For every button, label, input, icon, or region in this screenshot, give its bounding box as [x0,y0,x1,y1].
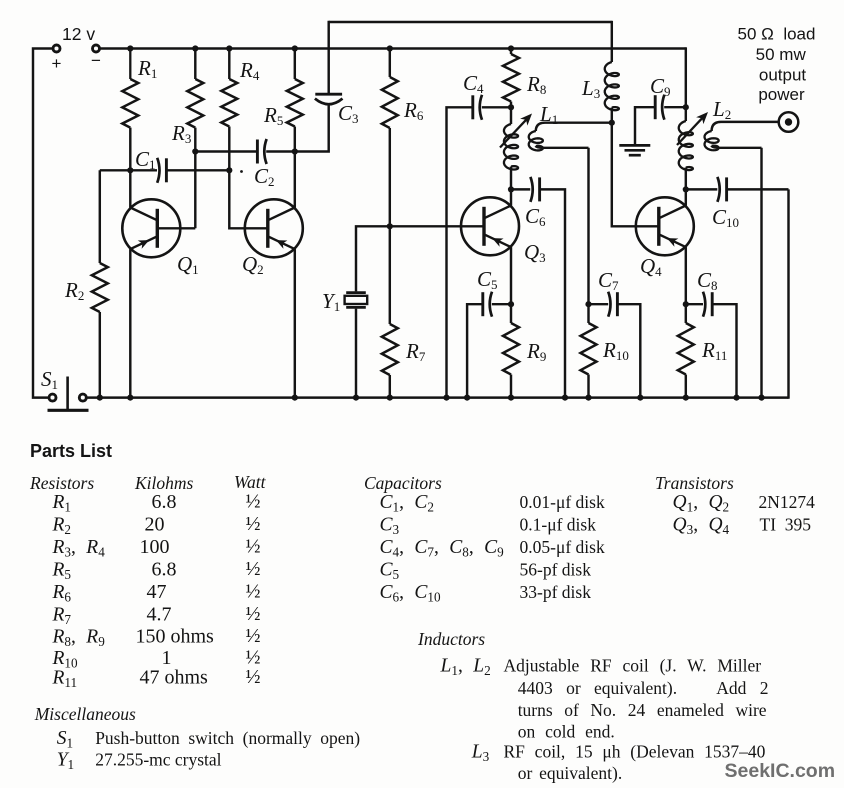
wire C4 left lead and drop to rail [447,107,473,397]
svg-text:6.8: 6.8 [152,559,177,581]
wire battery + lead and left drop [33,49,53,398]
wire C9 right lead [664,106,686,108]
wire C3 top lead [327,21,329,94]
svg-text:47 ohms: 47 ohms [140,667,209,689]
node Q4 collector / C10 junction [683,186,689,192]
capacitor C1 [165,158,168,182]
wire top rail from C3 to L3 [329,21,612,23]
arrow L1 adjustable core [500,118,528,148]
svg-text:½: ½ [246,558,261,580]
wire C9 left lead to ground [635,107,655,145]
svg-text:50 Ω load: 50 Ω load [738,25,816,44]
svg-text:Q3, Q4: Q3, Q4 [673,515,730,538]
node Q1 emitter at rail [127,395,133,401]
svg-text:2N1274: 2N1274 [759,492,816,512]
node R3 bottom / C2 junction [192,148,198,154]
svg-text:0.01-μf disk: 0.01-μf disk [520,492,605,512]
inductor L1 secondary winding [536,123,612,131]
inductor L2 primary winding [685,107,687,121]
inductor L3 [611,21,613,62]
wire C1 right segment [166,169,229,171]
node R5 bottom / C2 / C3 junction [292,148,298,154]
node Q2 emitter at rail [292,395,298,401]
capacitor C7 [616,292,619,316]
svg-text:−: − [91,51,101,70]
svg-text:½: ½ [246,603,261,625]
wire C6 left lead [511,188,530,190]
resistor R11 [685,304,687,323]
wire Q4 emitter lead [685,247,687,304]
wire C8 left lead [686,303,703,305]
capacitor C4 [471,95,474,119]
wire Q1 emitter down to rail [129,249,131,398]
node R9 bottom [508,395,514,401]
capacitor C5 [481,292,484,316]
node C9 right junction [683,104,689,110]
capacitor C10 [725,177,728,201]
terminal battery − (12 v) [93,45,100,52]
wire Q2 emitter down to rail [294,249,296,398]
crystal Y1 [346,291,366,294]
wire L3 junction down to Q4 base [612,123,659,227]
node R7 bottom [387,395,393,401]
node R1 top [127,45,133,51]
svg-text:Capacitors: Capacitors [364,473,442,493]
wire Y1 bottom lead [355,309,357,398]
svg-text:4403 or equivalent). Add 2: 4403 or equivalent). Add 2 [518,678,769,698]
svg-text:R3, R4: R3, R4 [52,537,106,560]
capacitor C2 [256,140,259,164]
wire C10 right lead [727,188,789,190]
capacitor C6 [538,177,541,201]
node R6 bottom / Q3 base junction [387,223,393,229]
svg-text:½: ½ [246,625,261,647]
svg-text:½: ½ [246,491,261,513]
svg-text:L1, L2: L1, L2 [440,656,491,679]
node L1 secondary top / L3 junction [609,120,615,126]
arrow L2 adjustable core [677,116,704,145]
wire Q1 collector lead [129,170,131,207]
svg-text:or equivalent).: or equivalent). [518,763,623,783]
node C5 left at rail [464,395,470,401]
wire C2 line R3 to R5 [195,150,257,152]
svg-text:Parts List: Parts List [30,441,112,461]
transistor Q4 [636,197,694,255]
wire C7 left lead [589,303,609,305]
node R8 bottom / C4 / L1 junction [508,104,514,110]
transistor Q2 [245,199,303,257]
wire C3 bottom lead [295,103,329,151]
wire C1 left segment from R2 corner [100,169,157,171]
svg-text:50 mw: 50 mw [756,45,807,64]
svg-text:Resistors: Resistors [29,473,94,493]
capacitor C3 [315,93,342,96]
wire Q3 base line to Y1 [356,226,484,291]
svg-text:turns of No. 24 enameled wire: turns of No. 24 enameled wire [518,700,767,720]
node L2 secondary bottom at rail [758,395,764,401]
svg-text:47: 47 [147,581,167,603]
svg-text:R8, R9: R8, R9 [52,627,106,650]
node Y1 bottom [353,395,359,401]
svg-text:Kilohms: Kilohms [134,473,194,493]
wire C4 right lead [482,106,511,108]
node R2 bottom [97,395,103,401]
resistor R2 [92,263,108,312]
node C7 right at rail [637,395,643,401]
transistor Q1 [122,199,180,257]
svg-text:12 v: 12 v [62,24,95,44]
resistor R5 [294,49,296,80]
svg-text:output: output [759,66,807,85]
svg-text:27.255-mc crystal: 27.255-mc crystal [95,750,221,770]
svg-text:Watt: Watt [234,472,267,492]
svg-text:100: 100 [140,536,170,558]
wire Q1 base lead [157,227,195,229]
svg-text:0.05-μf disk: 0.05-μf disk [520,537,605,557]
node Q3 collector / C6 junction [508,186,514,192]
node R3 top [192,45,198,51]
svg-text:+: + [52,54,62,73]
svg-text:Q1, Q2: Q1, Q2 [673,492,730,515]
svg-text:C1, C2: C1, C2 [380,492,434,515]
svg-text:½: ½ [246,513,261,535]
capacitor C8 [711,292,714,316]
resistor R4 [228,49,230,80]
resistor R6 [389,49,391,78]
wire C10 left lead [686,188,718,190]
svg-text:½: ½ [246,536,261,558]
node R10 bottom [585,395,591,401]
wire C6 right lead and drop [540,189,565,397]
capacitor C9 [654,95,657,119]
terminal battery + (12 v) [53,45,60,52]
svg-text:½: ½ [246,666,261,688]
resistor R7 [389,226,391,324]
resistor R1 [129,49,131,80]
svg-text:6.8: 6.8 [152,491,177,513]
node C7 / R10 junction [585,301,591,307]
svg-text:on cold end.: on cold end. [518,722,615,742]
node R4 top [226,45,232,51]
svg-text:C4, C7, C8, C9: C4, C7, C8, C9 [380,537,505,560]
svg-text:Inductors: Inductors [417,629,485,649]
svg-text:Transistors: Transistors [655,473,734,493]
node C8 right at rail [733,395,739,401]
inductor L2 secondary winding [712,122,779,131]
svg-text:4.7: 4.7 [147,604,172,626]
wire Q4 collector lead [685,189,687,205]
switch S1 actuator bar [48,409,89,412]
svg-text:56-pf disk: 56-pf disk [520,560,592,580]
wire C8 right lead and drop [712,304,736,397]
wire 12V rail right drop to C9 junction [685,47,687,107]
wire R5 junction down to Q2 collector [294,152,296,208]
node C4 left at rail [443,395,449,401]
wire R3 junction down to Q1 base [194,152,196,229]
wire C7 right lead and drop [617,304,640,397]
node C6 right at rail [562,395,568,401]
svg-text:RF coil, 15 μh (Delevan 1537–4: RF coil, 15 μh (Delevan 1537–40 [504,742,766,762]
resistor R9 [510,304,512,323]
svg-text:½: ½ [246,581,261,603]
resistor R10 [587,304,589,323]
svg-text:TI 395: TI 395 [760,515,812,535]
wire bottom ground rail [86,396,788,399]
node R4 bottom / C1-line junction [226,167,232,173]
resistor R8 [510,49,512,55]
svg-text:Miscellaneous: Miscellaneous [34,704,136,724]
node R6 top [387,45,393,51]
switch S1 push-button contacts [49,394,56,401]
wire C5 right lead [492,303,511,305]
svg-text:150 ohms: 150 ohms [136,626,215,648]
terminal RF output connector [779,112,799,132]
svg-text:power: power [758,85,805,104]
wire 12V supply rail [99,47,686,50]
ground below C9 [619,144,650,147]
node R1 bottom / C1 junction [127,167,133,173]
svg-text:Push-button switch (normally o: Push-button switch (normally open) [95,728,360,748]
wire Q3 collector lead [510,189,512,205]
svg-text:SeekIC.com: SeekIC.com [725,760,836,782]
resistor R3 [194,49,196,80]
node C5 / R9 junction [508,301,514,307]
inductor L1 primary winding [510,107,512,124]
wire C10 right drop to rail end [787,189,789,398]
node Q4 emitter / C8 junction [683,301,689,307]
svg-text:20: 20 [145,514,165,536]
transistor Q3 [461,197,519,255]
node R8 top [508,45,514,51]
svg-text:Adjustable RF coil (J. W. Mill: Adjustable RF coil (J. W. Miller [504,656,762,676]
wire R4 junction down to Q2 base [229,170,267,228]
wire C5 left lead and drop [467,304,483,397]
node R5 top [292,45,298,51]
wire C1 left corner down to R2 [99,170,101,263]
node R11 bottom [683,395,689,401]
svg-text:0.1-μf disk: 0.1-μf disk [520,515,597,535]
wire Q3 emitter lead [510,247,512,304]
svg-text:33-pf disk: 33-pf disk [520,582,592,602]
